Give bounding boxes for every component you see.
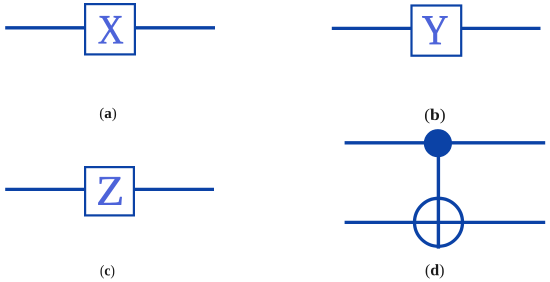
wire control qubit line circuit (d) [345,141,546,144]
gate label Z [98,177,121,205]
wire target qubit line circuit (d) [345,221,546,224]
caption (b) [425,109,445,124]
wire qubit line circuit (a) [5,26,215,29]
wire qubit line circuit (c) [5,188,214,191]
gate label X [99,16,123,43]
wire qubit line circuit (b) [332,27,541,30]
caption (c) [100,265,114,279]
control dot CNOT [424,129,452,157]
wire vertical CNOT connector [437,143,440,249]
caption (a) [100,108,116,122]
gate box Z (Pauli-Z) [85,167,134,215]
gate box X (Pauli-X) [85,4,135,54]
gate box Y (Pauli-Y) [412,6,462,56]
gate label Y [422,16,447,44]
caption (d) [426,264,444,279]
target symbol CNOT (XOR circle) [415,198,463,246]
